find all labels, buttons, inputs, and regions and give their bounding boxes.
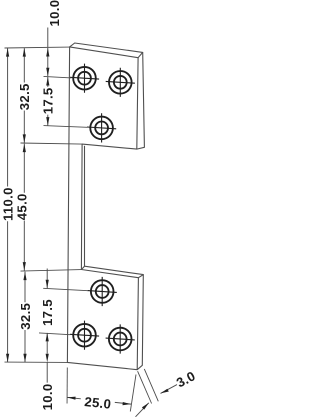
dimension 3.0 text [174,368,198,390]
extension line bottom flange top [21,270,82,272]
dimension 25.0 line [67,397,131,406]
extension line bottom edge [5,361,68,363]
svg-text:110.0: 110.0 [0,187,15,221]
dimension 17.5 top line [46,77,49,126]
extension line hole row A [44,76,72,78]
extension line 3.0 back [144,369,158,401]
dimension 10.0 top leader and line [46,28,49,77]
plate top face [70,43,143,58]
dimension 10.0 bottom line and leader [46,341,49,382]
plate front face outline [67,47,138,370]
hole B [106,68,135,97]
dimension 45.0 text [15,193,30,220]
extension line hole D [43,288,88,290]
top flange right side face [137,52,145,149]
dimension 110.0 line [6,48,9,362]
hole A [70,64,99,93]
extension line hole row E [39,333,70,335]
hole D [88,277,117,306]
extension line hole C [44,126,88,128]
dimension 32.5 top text [17,83,32,110]
svg-text:17.5: 17.5 [41,87,56,114]
extension line notch top [21,143,82,144]
dimension 45.0 line [23,144,26,271]
dimension 25.0 text [84,394,112,412]
dimension 32.5 bottom line [23,272,26,363]
bottom flange right side face [137,275,143,370]
svg-text:32.5: 32.5 [17,83,32,110]
dimension 110.0 text [0,187,15,221]
dimension 32.5 bottom text [18,303,33,330]
svg-text:17.5: 17.5 [40,299,55,326]
svg-text:45.0: 45.0 [15,193,30,220]
svg-text:10.0: 10.0 [47,0,62,27]
dimension 17.5 top text [41,87,56,114]
svg-text:32.5: 32.5 [18,303,33,330]
dimension 17.5 bottom line [46,269,49,342]
extension line 3.0 front [138,371,152,403]
dimension 3.0 right leader [161,385,178,394]
extension line 25.0 right slanted [130,375,136,412]
dimension 32.5 top line [23,48,26,143]
extension line top edge [5,46,70,49]
svg-text:25.0: 25.0 [84,394,112,412]
svg-text:10.0: 10.0 [40,384,55,411]
bar right side face edge [84,146,86,266]
dimension 10.0 bottom text [40,384,55,411]
dimension 3.0 left leader [136,403,149,417]
hole E [70,321,99,350]
bottom flange top face [81,266,143,278]
hole C [87,113,116,142]
extension line 25.0 left [66,368,68,404]
dimension 10.0 top text [47,0,62,27]
dimension 17.5 bottom text [40,299,55,326]
hole F [106,324,135,353]
